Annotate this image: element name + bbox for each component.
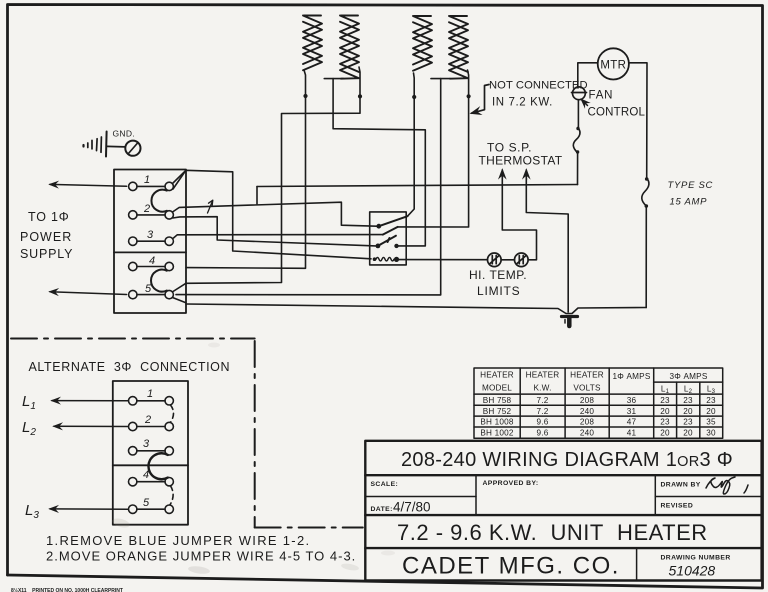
svg-text:CADET MFG. CO.: CADET MFG. CO. [402, 553, 620, 580]
svg-text:HI. TEMP.: HI. TEMP. [469, 268, 527, 282]
relay contact K1B pivot dot [376, 244, 381, 249]
svg-text:L1: L1 [22, 393, 36, 412]
fan control switch [572, 87, 587, 100]
moved jumper 3-4 (solid orange) [148, 453, 167, 479]
svg-text:BH 1002: BH 1002 [480, 429, 514, 438]
relay contact K1B blade [378, 236, 396, 246]
svg-text:GND.: GND. [113, 129, 135, 139]
svg-text:1: 1 [147, 388, 153, 400]
wire pair1 bottom bar with middle tap [324, 78, 343, 80]
relay coil K1 [373, 257, 399, 262]
svg-text:208: 208 [580, 418, 595, 427]
svg-text:23: 23 [683, 418, 693, 427]
wire thermostat arrow 2 to ground bus [526, 178, 568, 312]
svg-text:23: 23 [660, 418, 670, 427]
heater element R2 (pair 1 right zigzag) [340, 16, 359, 79]
svg-text:23: 23 [706, 396, 716, 405]
svg-text:BH 758: BH 758 [483, 396, 512, 405]
svg-text:15 AMP: 15 AMP [670, 197, 708, 208]
wire arrow to 1-phase supply line A [50, 184, 127, 186]
svg-text:23: 23 [660, 396, 670, 405]
svg-text:SUPPLY: SUPPLY [20, 247, 73, 261]
svg-text:TO S.P.: TO S.P. [487, 141, 532, 155]
earth ground symbol GND [84, 132, 141, 157]
wire terminal2 lower branch to relay K1B pivot [173, 217, 376, 246]
terminal 2 [129, 211, 174, 219]
svg-text:FAN: FAN [589, 90, 614, 102]
svg-text:208-240 WIRING DIAGRAM 1OR3: 208-240 WIRING DIAGRAM 1OR3 Φ [401, 449, 733, 471]
wire MTR right down to bus with breaker [629, 63, 649, 308]
svg-text:30: 30 [706, 429, 716, 438]
motor MTR [598, 48, 629, 79]
svg-text:240: 240 [580, 429, 595, 438]
wire element pair2 left drop becoming relay blade K1A [408, 73, 415, 216]
svg-text:REVISED: REVISED [661, 503, 694, 510]
svg-text:9.6: 9.6 [537, 418, 549, 427]
svg-text:CONTROL: CONTROL [588, 107, 646, 119]
chassis ground symbol [562, 317, 578, 327]
wire terminal2 to fan-control branch and relay K1A pivot [173, 187, 377, 227]
wire pair2 bottom bar with middle tap [431, 78, 450, 80]
wire pair1 middle tap down to relay contact K1B right [333, 79, 425, 246]
relay contact K1A blade [379, 216, 408, 226]
junction dot [303, 94, 307, 98]
junction dot [358, 94, 362, 98]
svg-text:20: 20 [683, 429, 693, 438]
svg-text:4: 4 [149, 255, 155, 267]
svg-text:MODEL: MODEL [482, 384, 512, 393]
svg-text:7.2: 7.2 [537, 396, 549, 405]
svg-text:L3: L3 [707, 385, 716, 396]
hi-temp limit switch S2 [515, 253, 529, 267]
wire pair2 middle tap down to terminal 5 row [176, 79, 441, 295]
dash-dot boundary of alternate connection area [11, 339, 363, 528]
svg-text:208: 208 [580, 396, 595, 405]
wire terminal1 wedge to coil (via top corner) [173, 170, 372, 258]
wire arrow to 1-phase supply line B [50, 292, 127, 295]
wire arrow L3 [50, 508, 128, 510]
relay contact K1A pivot dot [376, 224, 381, 229]
TB2 terminal 4 [129, 478, 174, 486]
relay contact K1B throw dot [394, 244, 398, 248]
terminal 4 [129, 262, 174, 270]
svg-text:SCALE:: SCALE: [371, 481, 399, 488]
stray pen arrow mark [208, 200, 213, 213]
heater element R3 (pair 2 left zigzag) [413, 16, 432, 71]
svg-text:LIMITS: LIMITS [477, 284, 520, 298]
TB2 terminal 3 [129, 447, 174, 455]
svg-text:TYPE SC: TYPE SC [668, 180, 714, 191]
svg-text:MTR: MTR [600, 60, 626, 72]
svg-text:BH 752: BH 752 [483, 407, 512, 416]
ratings table [474, 368, 723, 438]
svg-text:36: 36 [627, 396, 637, 405]
wire terminal5 lower wedge to bus [173, 283, 186, 303]
svg-text:4/7/80: 4/7/80 [393, 500, 431, 515]
drawn-by signature [706, 477, 748, 494]
wire element pair2 right drop to relay throw K1A [398, 70, 469, 227]
svg-text:1Φ AMPS: 1Φ AMPS [613, 372, 651, 381]
relay contact K1A throw stub [383, 227, 398, 235]
terminal 5 [129, 290, 174, 298]
terminal 1 [129, 182, 174, 190]
svg-text:L3: L3 [25, 502, 39, 521]
svg-text:VOLTS: VOLTS [573, 384, 601, 393]
svg-text:20: 20 [683, 407, 693, 416]
fan control pointer arrow [582, 100, 588, 106]
junction dot [467, 94, 471, 98]
wire arrow L2 [54, 425, 128, 427]
hi-temp limit switch S1 [488, 253, 502, 267]
svg-text:7.2: 7.2 [537, 407, 549, 416]
svg-text:L1: L1 [661, 385, 670, 396]
wire arrow L1 [52, 400, 128, 402]
title block [365, 441, 761, 581]
svg-text:3: 3 [143, 438, 150, 450]
paper smudge [208, 343, 220, 348]
leader line for NOT CONNECTED note [472, 85, 490, 114]
svg-text:L2: L2 [22, 419, 36, 438]
svg-text:8½X11 PRINTED ON NO. 1000H: 8½X11 PRINTED ON NO. 1000H CLEARPRINT [11, 587, 123, 592]
TB2 terminal 2 [129, 422, 174, 430]
svg-text:4: 4 [143, 469, 149, 481]
svg-text:5: 5 [143, 497, 150, 509]
svg-text:35: 35 [706, 418, 716, 427]
svg-text:3Φ AMPS: 3Φ AMPS [670, 372, 708, 381]
svg-text:HEATER: HEATER [570, 371, 604, 380]
thermostat arrow 2 head [525, 170, 527, 180]
terminal block TB1 [114, 170, 186, 314]
terminal 3 [129, 237, 174, 245]
svg-text:510428: 510428 [669, 563, 716, 579]
svg-text:TO 1Φ: TO 1Φ [28, 210, 70, 224]
thermostat arrow 1 head [501, 170, 503, 178]
svg-text:2: 2 [144, 414, 151, 426]
paper smudge [381, 551, 395, 556]
svg-text:IN 7.2 KW.: IN 7.2 KW. [492, 97, 553, 109]
svg-text:240: 240 [580, 407, 595, 416]
svg-text:9.6: 9.6 [537, 429, 549, 438]
svg-text:BH 1008: BH 1008 [480, 418, 514, 427]
svg-text:47: 47 [627, 418, 637, 427]
svg-text:1.REMOVE BLUE JUMPER WIRE: 1.REMOVE BLUE JUMPER WIRE 1-2. [46, 533, 310, 548]
wire fan control down with break [573, 100, 580, 185]
svg-text:5: 5 [145, 283, 152, 295]
removed jumper 4-5 (dashed) [170, 486, 173, 505]
svg-text:HEATER: HEATER [480, 371, 514, 380]
wire MTR left to fan control [578, 63, 598, 87]
wire fan line to terminal 2 branch [257, 185, 578, 187]
svg-text:2: 2 [143, 203, 150, 215]
svg-text:3: 3 [147, 229, 154, 241]
TB2 terminal 1 [129, 397, 174, 405]
svg-text:HEATER: HEATER [526, 371, 560, 380]
wire ground bus [186, 304, 646, 314]
svg-text:7.2 - 9.6 K.W. UNIT HEATER: 7.2 - 9.6 K.W. UNIT HEATER [397, 520, 708, 545]
jumper wire terminals 4-5 (orange) [151, 270, 167, 292]
wire terminal3 to relay throw K1B [174, 235, 383, 238]
svg-text:DRAWING NUMBER: DRAWING NUMBER [661, 555, 731, 562]
svg-text:31: 31 [627, 407, 637, 416]
jumper wire terminals 1-2 (blue) [151, 190, 166, 212]
svg-text:20: 20 [706, 407, 716, 416]
svg-text:DATE:: DATE: [371, 506, 393, 513]
junction dot [412, 95, 416, 99]
heater element R4 (pair 2 right zigzag) [449, 16, 468, 79]
svg-text:THERMOSTAT: THERMOSTAT [479, 154, 563, 168]
paper smudge [188, 565, 211, 575]
svg-text:41: 41 [627, 429, 637, 438]
svg-text:L2: L2 [684, 385, 693, 396]
svg-text:23: 23 [683, 396, 693, 405]
wire element pair1 right drop [186, 67, 360, 283]
TB2 terminal 5 [129, 505, 174, 513]
svg-text:DRAWN BY: DRAWN BY [661, 482, 701, 489]
svg-text:NOT CONNECTED: NOT CONNECTED [489, 80, 588, 92]
wire limits to thermostat arrow 1 [502, 177, 536, 260]
svg-text:1: 1 [144, 174, 150, 186]
relay contactor K1 box [370, 212, 407, 265]
terminal block TB2 (alternate 3-phase) [113, 381, 188, 525]
removed jumper 1-2 (dashed) [171, 405, 174, 422]
svg-text:APPROVED BY:: APPROVED BY: [483, 480, 539, 487]
svg-text:2.MOVE ORANGE JUMPER WIRE: 2.MOVE ORANGE JUMPER WIRE 4-5 TO 4-3. [46, 549, 356, 564]
heater element R1 (pair 1 left zigzag) [303, 16, 322, 71]
svg-text:20: 20 [660, 429, 670, 438]
wire between limits [501, 259, 514, 261]
svg-text:POWER: POWER [20, 230, 72, 244]
paper smudge [341, 562, 360, 571]
paper smudge [111, 517, 130, 529]
wire element pair1 left drop to terminal 4 [186, 70, 306, 268]
wire coil to hi-temp limits [399, 259, 488, 261]
svg-text:20: 20 [660, 407, 670, 416]
svg-text:K.W.: K.W. [533, 384, 551, 393]
svg-text:ALTERNATE 3Φ CONNECTION: ALTERNATE 3Φ CONNECTION [29, 360, 231, 374]
